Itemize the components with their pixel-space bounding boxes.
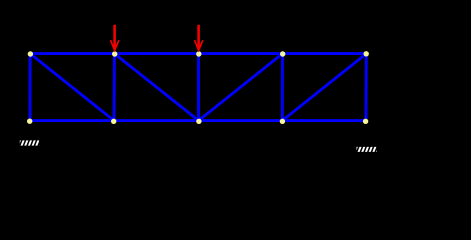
diagonal member D4: [282, 54, 366, 121]
vertical member V2: [113, 54, 116, 121]
node 10 bottom: [363, 119, 368, 124]
node 9 bottom: [280, 119, 285, 124]
vertical member V5: [365, 54, 368, 121]
load arrow P1: [111, 25, 119, 51]
diagonal member D2: [114, 54, 198, 121]
node 2 top: [112, 51, 117, 56]
node 7 bottom: [111, 119, 116, 124]
bottom chord member: [30, 119, 367, 122]
node 3 top: [196, 51, 201, 56]
node 5 top: [364, 51, 369, 56]
diagonal member D3: [199, 54, 283, 121]
vertical member V4: [281, 54, 284, 121]
diagonal member D1: [30, 54, 114, 121]
right support hatching: [355, 146, 380, 153]
top chord member: [30, 52, 366, 55]
load arrow P2: [195, 25, 203, 51]
node 8 bottom: [196, 119, 201, 124]
node 4 top: [280, 51, 285, 56]
left support hatching: [18, 140, 43, 147]
vertical member V3: [197, 54, 200, 121]
vertical member V1: [29, 54, 32, 121]
node 6 bottom: [27, 119, 32, 124]
node 1 top: [28, 51, 33, 56]
